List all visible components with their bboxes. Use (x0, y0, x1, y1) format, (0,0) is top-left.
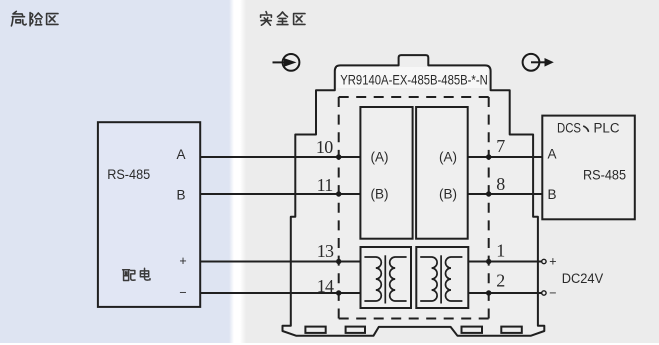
svg-text:14: 14 (317, 276, 334, 296)
svg-text:A: A (548, 147, 557, 162)
svg-text:B: B (548, 187, 557, 202)
svg-text:(B): (B) (371, 187, 389, 202)
label 安全区 (safe area) (261, 12, 305, 26)
arrow-out symbol (right, output port) (523, 54, 554, 71)
label 配电 (power supply) (123, 268, 150, 280)
svg-text:PLC: PLC (594, 121, 620, 136)
wire − (field box to terminal 14) (200, 292, 360, 294)
svg-text:13: 13 (317, 241, 334, 261)
module mounting foot slot 2 (346, 327, 365, 333)
junction dot terminal 1 (486, 259, 491, 264)
wire terminal 2 to DC24V − (468, 292, 541, 294)
device DCS/PLC box (542, 116, 635, 220)
isolator output block (A)(B) right (416, 107, 468, 239)
transformer T1 windings and core (364, 255, 406, 303)
wire terminal 1 to DC24V + (468, 261, 541, 263)
svg-text:B: B (176, 187, 185, 202)
module label background (337, 67, 488, 88)
label 危险区 (hazardous area) (11, 11, 58, 26)
svg-text:+: + (549, 254, 556, 268)
svg-text:+: + (179, 254, 186, 268)
svg-text:−: − (179, 286, 186, 300)
junction dot terminal 8 (486, 191, 491, 196)
junction dot terminal 10 (336, 154, 341, 159)
hazardous area panel (0, 0, 229, 343)
svg-text:−: − (549, 286, 556, 300)
module mounting foot slot 4 (501, 327, 522, 333)
device RS-485 field box (98, 122, 200, 307)
transformer T2 box (416, 247, 468, 308)
svg-text:1: 1 (496, 241, 505, 261)
svg-text:(B): (B) (439, 187, 457, 202)
junction dot terminal 14 (336, 290, 341, 295)
svg-text:2: 2 (496, 271, 505, 291)
svg-text:A: A (176, 147, 185, 162)
junction dot terminal 2 (486, 290, 491, 295)
svg-text:8: 8 (496, 174, 505, 194)
svg-text:11: 11 (317, 175, 333, 195)
svg-text:RS-485: RS-485 (107, 167, 150, 182)
intrinsic safety boundary (dashed box) (339, 97, 489, 319)
svg-text:7: 7 (496, 136, 505, 156)
svg-text:10: 10 (316, 137, 333, 157)
svg-text:YR9140A-EX-485B-485B-*-N: YR9140A-EX-485B-485B-*-N (340, 73, 488, 88)
transformer T2 windings and core (420, 255, 462, 303)
junction dot terminal 7 (486, 154, 491, 159)
wire terminal 7 to DCS box A (468, 156, 543, 158)
module mounting foot slot 1 (305, 327, 325, 333)
wire A (field box to terminal 10) (200, 156, 360, 158)
svg-text:DC24V: DC24V (562, 271, 604, 286)
junction dot terminal 13 (336, 259, 341, 264)
module mounting foot slot 3 (462, 327, 483, 333)
safe area panel (240, 0, 246, 343)
svg-text:DCS: DCS (557, 121, 581, 136)
svg-text:RS-485: RS-485 (583, 168, 626, 183)
isolator module silhouette (283, 55, 545, 336)
DC24V + terminal circle (542, 259, 546, 263)
arrow-in symbol (left, input port) (273, 54, 300, 71)
DC24V − terminal circle (542, 291, 546, 295)
svg-text:(A): (A) (371, 150, 389, 165)
wire + (field box to terminal 13) (200, 261, 360, 263)
transformer T1 box (361, 247, 412, 308)
wire terminal 8 to DCS box B (468, 193, 543, 195)
isolator input block (A)(B) left (360, 107, 412, 239)
junction dot terminal 11 (336, 191, 341, 196)
wire B (field box to terminal 11) (200, 193, 360, 195)
svg-text:(A): (A) (439, 150, 457, 165)
